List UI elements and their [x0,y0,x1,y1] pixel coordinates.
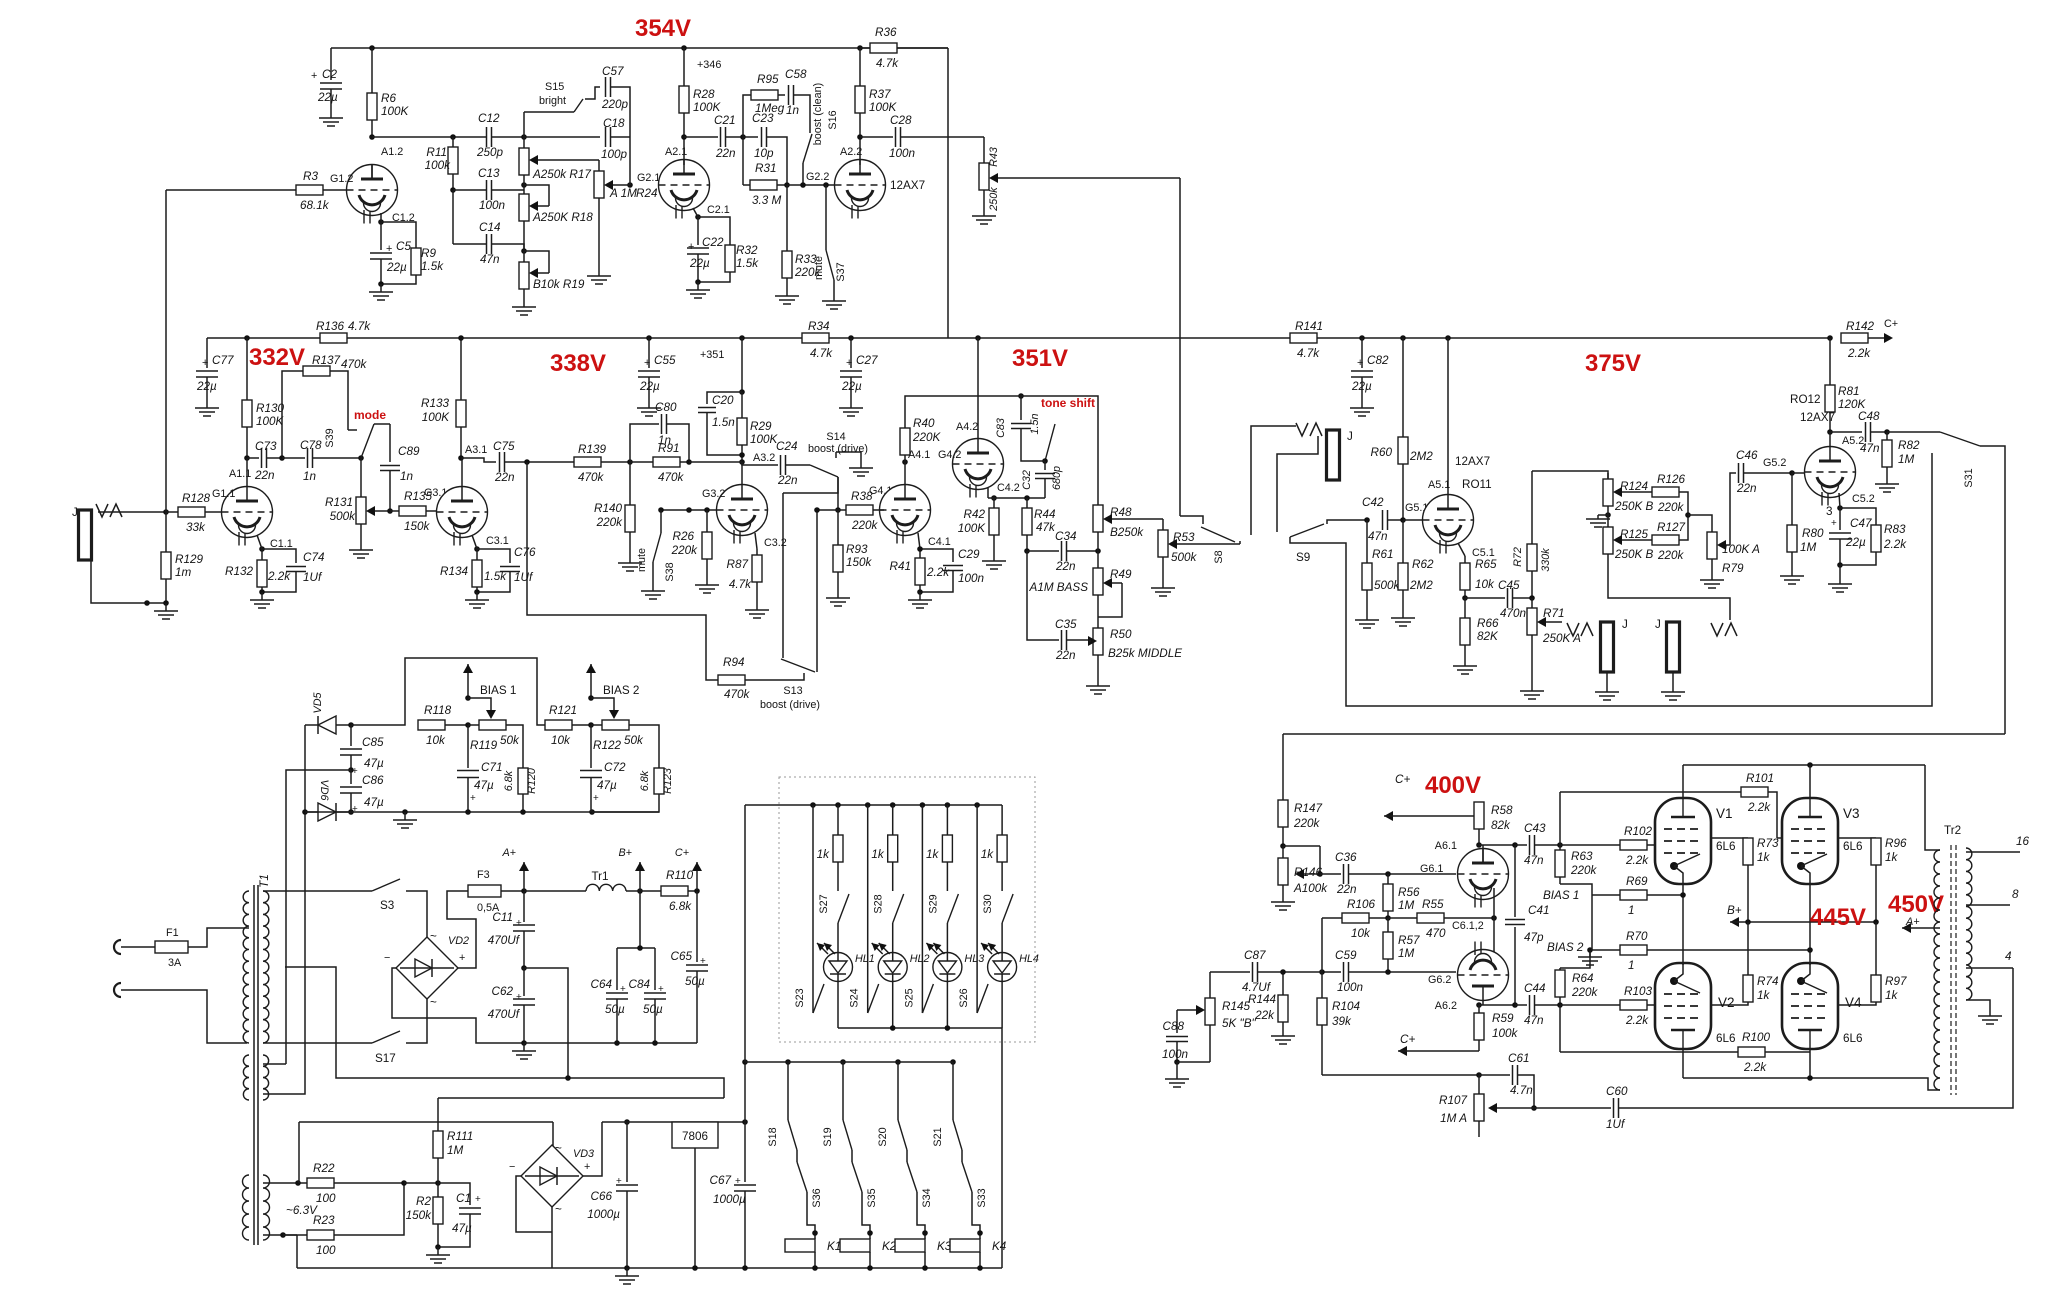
svg-text:HL1: HL1 [855,953,875,965]
resistor R57 1M [1387,918,1389,932]
svg-text:1: 1 [1628,959,1635,972]
svg-text:47n: 47n [1524,1014,1544,1027]
resistor R3 68.1k grid [166,189,296,191]
relay K2 [840,1239,870,1252]
svg-text:C71: C71 [481,761,502,774]
wire VD3 ac bottom [551,1207,553,1268]
svg-text:R80: R80 [1802,527,1824,540]
node switch S24 top [865,802,871,808]
capacitor C45 470n [1465,597,1505,599]
svg-text:R125: R125 [1620,528,1648,541]
tube A4.2 triode [953,439,1004,490]
node A2.2 anode [857,134,863,140]
svg-text:C35: C35 [1055,618,1077,631]
wire heater rail y1122 [299,1121,553,1123]
resistor R127 220k [1652,535,1679,545]
switch S21 column [950,1059,956,1065]
svg-text:500k: 500k [330,510,357,523]
svg-text:VD2: VD2 [448,935,469,947]
svg-text:+: + [202,357,208,369]
resistor R126 220k [1652,487,1679,497]
svg-text:50k: 50k [500,734,520,747]
wire gnd bus bottom [297,1267,1002,1269]
node A3.1 anode [458,455,464,461]
svg-text:G4.2: G4.2 [938,449,961,461]
resistor 1k HL3 [946,805,948,835]
svg-text:470k: 470k [578,471,605,484]
svg-text:C5: C5 [396,240,411,253]
node R81 bottom [1827,429,1833,435]
switch S14 boost drive [810,465,838,477]
resistor R61 500k [1366,520,1368,563]
svg-text:10k: 10k [1351,927,1371,940]
svg-text:R34: R34 [808,320,830,333]
svg-text:S8: S8 [1213,550,1225,563]
svg-text:22n: 22n [254,469,275,482]
ground A2.1 cathode [695,279,701,285]
svg-text:250p: 250p [476,146,504,159]
switch S33 [962,1162,972,1192]
resistor R56 1M [1387,874,1389,884]
resistor R118 10k [418,720,445,730]
svg-text:1k: 1k [817,848,831,861]
svg-text:+: + [1831,518,1837,529]
resistor R62 2M2 [1402,520,1404,563]
wire bias CT [286,770,351,891]
svg-text:R121: R121 [549,704,577,717]
svg-text:1k: 1k [1885,851,1899,864]
svg-text:R123: R123 [662,768,674,794]
R79 wiper [1719,544,1730,546]
svg-text:boost (drive): boost (drive) [808,443,868,455]
ground R50 [1097,655,1099,678]
svg-text:R56: R56 [1398,886,1420,899]
capacitor C76 1Uf [477,549,510,563]
svg-text:375V: 375V [1585,350,1641,377]
svg-text:R26: R26 [673,530,695,543]
R119 wiper feed [468,698,491,712]
svg-text:22n: 22n [777,474,798,487]
svg-text:R62: R62 [1412,558,1434,571]
svg-text:22n: 22n [1055,649,1076,662]
svg-text:470Uf: 470Uf [488,1008,521,1021]
svg-text:B250k: B250k [1110,526,1144,539]
R125 wiper [1615,539,1652,541]
ground R53 [1162,580,1164,588]
svg-text:+: + [516,918,522,929]
potentiometer R79 100K A presence [1707,532,1717,559]
potentiometer R119 50k [468,724,479,726]
svg-text:22µ: 22µ [1351,380,1372,393]
svg-text:R31: R31 [755,162,776,175]
svg-text:A3.1: A3.1 [465,444,487,456]
resistor R102 2.2k [1560,844,1620,846]
svg-text:1M: 1M [1398,899,1415,912]
svg-text:C66: C66 [591,1190,613,1203]
svg-text:22n: 22n [494,471,515,484]
svg-text:1m: 1m [175,566,192,579]
svg-text:C18: C18 [603,117,625,130]
ground J4 [1672,672,1674,688]
resistor R69 1 [1592,894,1620,896]
node R11/C13 [450,187,456,193]
potentiometer R122 50k [591,724,602,726]
svg-text:332V: 332V [249,344,305,371]
wire HT secondary bottom to S17 [263,1042,372,1044]
svg-text:R145: R145 [1222,1000,1250,1013]
resistor R137 470k mode loop [282,371,303,458]
svg-text:boost (drive): boost (drive) [760,699,820,711]
svg-text:HL4: HL4 [1019,953,1039,965]
svg-text:82k: 82k [1491,819,1511,832]
svg-text:1k: 1k [1757,851,1771,864]
svg-text:C14: C14 [479,221,501,234]
svg-text:1k: 1k [926,848,940,861]
svg-text:400V: 400V [1425,772,1481,799]
node C21/C23 [740,134,746,140]
svg-text:S35: S35 [866,1188,878,1207]
wire VD5-VD6 left riser [304,725,306,891]
svg-text:A+: A+ [501,847,516,859]
capacitor C46 22n [1738,463,1740,483]
svg-text:BIAS 1: BIAS 1 [480,684,516,697]
node C61/R107 [1531,1105,1537,1111]
arrow A+ in [1902,923,1911,933]
svg-text:R66: R66 [1477,617,1499,630]
svg-text:22µ: 22µ [1845,536,1866,549]
svg-text:445V: 445V [1810,904,1866,931]
svg-text:A250K R18: A250K R18 [532,211,593,224]
svg-text:1: 1 [1628,904,1635,917]
arrow A+ feed [523,862,525,890]
svg-text:R133: R133 [421,397,449,410]
svg-text:1M A: 1M A [1440,1112,1467,1125]
svg-text:1k: 1k [1885,989,1899,1002]
resistor R123 6.8k [654,768,664,794]
wire S17 to bridge [406,998,427,1043]
svg-text:47k: 47k [1036,521,1056,534]
svg-text:R40: R40 [913,417,935,430]
R53 wiper [1170,543,1240,545]
svg-text:220p: 220p [601,98,629,111]
wire R11 to C14 [452,190,454,244]
relay supply bus [745,1061,953,1063]
tube A5.2 triode RO12 [1805,447,1856,498]
ground A1.2 cathode [380,284,382,292]
svg-text:1.5n: 1.5n [712,416,735,429]
node R91 left [627,459,633,465]
svg-text:C11: C11 [492,911,513,924]
svg-text:A1.1: A1.1 [229,468,251,480]
svg-text:C32: C32 [1021,470,1033,490]
svg-text:5K "B": 5K "B" [1222,1017,1256,1030]
V contact J2 [1296,423,1308,436]
node R44 bottom [1024,548,1030,554]
svg-text:S20: S20 [877,1127,889,1146]
ground R26 [706,577,708,585]
wire V3 anode [1809,765,1811,798]
svg-text:R141: R141 [1295,320,1323,333]
svg-text:HL3: HL3 [964,953,984,965]
node R131 wiper / R135 [387,508,393,514]
wire heater ref2 [298,1122,300,1183]
resistor R60 2M2 [1402,338,1404,437]
svg-text:A4.1: A4.1 [908,449,930,461]
svg-text:R9: R9 [421,247,436,260]
grid wire G3.2 [661,509,716,511]
bridge rectifier VD2 [396,937,458,999]
node VD6 [302,809,308,815]
svg-text:C12: C12 [478,112,500,125]
svg-text:R49: R49 [1110,568,1132,581]
svg-text:6.8k: 6.8k [639,770,651,791]
svg-text:A6.2: A6.2 [1435,1000,1457,1012]
svg-text:250k: 250k [988,187,1000,212]
svg-text:2M2: 2M2 [1409,579,1433,592]
resistor R11 100k [452,137,454,147]
Tr2 secondary gnd [1966,1000,1990,1012]
capacitor C47 22u [1839,508,1841,530]
node V3 anode [1807,762,1813,768]
svg-text:33k: 33k [186,521,206,534]
wire heater rail2 [296,1235,298,1268]
svg-text:10k: 10k [426,734,446,747]
svg-text:R106: R106 [1347,898,1375,911]
svg-text:R64: R64 [1572,972,1594,985]
svg-text:220K: 220K [912,431,942,444]
switch S38 mute ch2 [660,510,662,533]
R122 wiper feed [591,698,614,712]
svg-text:S36: S36 [811,1188,823,1207]
svg-text:100: 100 [316,1244,336,1257]
capacitor C64 50u [639,891,641,948]
svg-text:R60: R60 [1371,446,1393,459]
svg-text:C34: C34 [1055,530,1077,543]
resistor R91 470k [630,461,653,463]
svg-text:B+: B+ [618,847,632,859]
capacitor C84 50u [654,948,656,990]
svg-text:+: + [620,984,626,995]
capacitor C35 22n [1027,551,1059,640]
wire C18 output down to grid [629,137,631,185]
capacitor C29 100n [920,549,953,562]
svg-text:R91: R91 [658,442,679,455]
svg-text:R3: R3 [303,170,318,183]
switch S37 mute [823,182,829,188]
wire to A3.2 [689,461,742,463]
ground R146 [1282,898,1284,902]
svg-text:+: + [616,1176,622,1187]
resistor R73 1k [1743,838,1753,865]
svg-text:R131: R131 [325,496,353,509]
svg-text:mode: mode [354,408,386,422]
node G6.1 grid [1385,871,1391,877]
node ground input [163,600,169,606]
node C85/C86 [348,767,354,773]
ground R80 [1791,572,1793,576]
svg-text:G1.1: G1.1 [212,488,235,500]
svg-text:22µ: 22µ [639,380,660,393]
svg-text:C45: C45 [1498,579,1520,592]
svg-text:HL2: HL2 [910,953,930,965]
svg-text:C75: C75 [493,440,515,453]
svg-text:G5.2: G5.2 [1763,457,1786,469]
ground J3 [1606,672,1608,688]
svg-text:354V: 354V [635,15,691,42]
capacitor C2 22u [330,48,332,80]
jack tip contact [96,504,108,517]
potentiometer R124 250K B [1607,473,1609,479]
svg-text:220k: 220k [1293,817,1321,830]
svg-text:2.2k: 2.2k [926,566,950,579]
svg-text:C24: C24 [776,440,798,453]
ground S14 [860,464,862,468]
svg-text:R87: R87 [727,558,749,571]
svg-text:+: + [475,1194,481,1205]
svg-text:22k: 22k [1254,1009,1275,1022]
svg-text:C62: C62 [492,985,514,998]
wire VD5 to R118 [351,658,545,725]
svg-text:R132: R132 [225,565,253,578]
node R64/C44/R103 [1557,1002,1563,1008]
svg-text:C27: C27 [856,354,878,367]
resistor 1k HL4 [1001,805,1003,835]
svg-text:470k: 470k [341,358,368,371]
wire VD3 ac top [552,1122,554,1146]
svg-text:22µ: 22µ [196,380,217,393]
node R41 bottom [917,546,923,552]
ground R66 [1464,658,1466,666]
svg-text:C42: C42 [1362,496,1384,509]
node relay K4 coil top [977,1230,983,1236]
svg-text:+: + [688,241,694,253]
tube G3.2 triode [717,485,768,536]
node LED HL1 top [835,802,841,808]
resistor R42 100K [993,498,995,508]
resistor 1k HL2 [892,805,894,835]
svg-text:V1: V1 [1716,806,1733,821]
wire V3/V4 cathode link [1809,884,1811,965]
svg-text:R127: R127 [1657,521,1685,534]
wire A5.2 anode riser [1829,432,1831,447]
node cathode bottom [378,281,384,287]
svg-text:16: 16 [2016,835,2030,848]
svg-text:C20: C20 [712,394,734,407]
svg-text:R82: R82 [1898,439,1920,452]
svg-text:R97: R97 [1885,975,1907,988]
potentiometer R50 B25k middle [1093,628,1103,655]
wire C87 left [1209,972,1211,998]
capacitor C20 1.5n [707,392,742,404]
capacitor C80 1n loop [630,424,659,462]
node V4 cathode [1807,1075,1813,1081]
potentiometer R49 A1M bass [1093,568,1103,595]
svg-text:boost (clean): boost (clean) [812,83,824,145]
node S16 tap [800,182,806,188]
svg-text:150k: 150k [846,556,873,569]
tube G4.1 triode [880,485,931,536]
ground R71 [1531,687,1533,691]
ground R93 [837,590,839,598]
svg-text:C77: C77 [212,354,234,367]
svg-text:S23: S23 [794,988,806,1007]
resistor R31 3.3M [743,184,750,186]
node C59/R144 [1319,969,1325,975]
svg-text:C+: C+ [1395,773,1410,786]
arrow B+ feed [639,862,641,890]
svg-text:RO11: RO11 [1462,478,1492,491]
ground HT [523,1043,525,1051]
switch tone shift blade [1045,424,1055,461]
capacitor C12 250p [486,127,488,147]
cathode bus [1683,1078,1940,1090]
svg-text:B25k MIDDLE: B25k MIDDLE [1108,647,1182,660]
resistor R37 100K anode [859,48,861,86]
svg-text:1M: 1M [1898,453,1915,466]
svg-text:470: 470 [1426,927,1446,940]
tube A2.2 triode [835,160,886,211]
resistor R65 10k [1464,556,1466,563]
wire J2 tip [1251,426,1296,535]
svg-text:100K: 100K [958,522,987,535]
svg-text:100K: 100K [381,105,410,118]
capacitor C11 470Uf [523,891,525,922]
wire jack sleeve [91,560,166,603]
svg-text:R102: R102 [1624,825,1652,838]
wire A1.2 anode lead [371,165,373,179]
svg-text:R2: R2 [416,1195,431,1208]
svg-text:R44: R44 [1034,508,1056,521]
potentiometer R146 A100k [1282,846,1284,858]
wire 332/338/351/375V bus [207,337,802,339]
node B+ rail [637,888,643,894]
svg-text:C41: C41 [1528,904,1549,917]
ground bias [404,812,406,820]
svg-text:12AX7: 12AX7 [1800,411,1835,424]
R18 wiper loop [531,205,549,207]
potentiometer R131 500k [360,458,362,497]
svg-text:S3: S3 [380,899,394,912]
svg-text:R147: R147 [1294,802,1322,815]
R146 wiper [1319,846,1321,874]
switch S26 [976,805,978,1013]
node R65/R66 [1462,595,1468,601]
svg-text:mute: mute [636,548,648,572]
svg-text:V4: V4 [1845,995,1862,1010]
svg-text:C55: C55 [654,354,676,367]
resistor R2 150k [437,1183,439,1197]
svg-text:220k: 220k [1657,549,1685,562]
svg-text:1000µ: 1000µ [713,1193,746,1206]
wire big loop output lower [1283,733,2005,735]
capacitor C59 100n [1322,971,1341,973]
node A6.2 [1476,1002,1482,1008]
node VD5 cathode [348,722,354,728]
svg-text:1Uf: 1Uf [1606,1118,1626,1131]
capacitor C28 100n [860,136,893,138]
svg-text:~: ~ [555,1142,562,1155]
potentiometer R48 B250k treble [1093,505,1103,532]
resistor R33 220k [786,185,788,251]
svg-text:V3: V3 [1843,806,1860,821]
ground bias2 node [1589,950,1591,953]
ground C88 [1176,1062,1178,1075]
svg-text:+: + [846,357,852,369]
svg-text:2.2k: 2.2k [1847,347,1871,360]
svg-text:R100: R100 [1742,1031,1770,1044]
capacitor C36 22n [1320,873,1341,875]
ground C2 [330,110,332,118]
